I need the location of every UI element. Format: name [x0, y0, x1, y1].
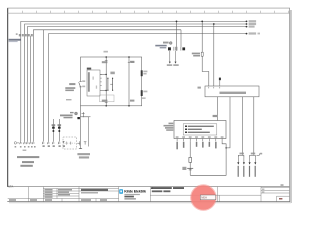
wire strip branch 2 — [226, 97, 230, 148]
approval stamp — [190, 184, 217, 211]
wire F1 out b — [175, 51, 177, 64]
title right small marks — [262, 189, 264, 193]
wire F2b vertical — [58, 119, 60, 141]
company address lines — [124, 194, 139, 200]
stamp MUH box — [200, 195, 216, 200]
motor starter M1 circle — [75, 112, 78, 115]
breaker F1 aux body — [182, 47, 185, 50]
fuse F3 on box right edge — [141, 70, 148, 76]
transformer T1 circle — [169, 42, 172, 45]
terminal strip X1 — [198, 86, 260, 97]
connector A wire labels — [238, 166, 245, 177]
bus line L2 — [25, 24, 247, 141]
label strip X1 — [220, 92, 247, 94]
label motor name — [17, 156, 39, 158]
label motor rating — [20, 150, 34, 167]
relay K1 pins — [100, 74, 102, 85]
label Q1 — [65, 83, 75, 91]
sheet right shadow — [290, 10, 292, 203]
sheet bottom shadow — [9, 202, 291, 203]
label module left — [164, 123, 174, 131]
wire module pin3 chain — [189, 141, 191, 175]
battery tick in pin3 chain — [182, 167, 193, 170]
sheet frame bottom edge — [7, 201, 290, 203]
sheet number text — [279, 198, 282, 200]
coil K1 — [107, 78, 113, 91]
title block small texts left — [9, 189, 107, 201]
wire strip branch 3 — [242, 97, 244, 155]
connector plug B pins — [249, 157, 257, 164]
label module top pin — [213, 115, 217, 117]
fuse F5 tap wire — [201, 21, 209, 87]
terminal number marks row — [15, 145, 65, 147]
terminal stub mark — [219, 78, 221, 86]
controller module U1 — [174, 121, 226, 139]
label middle wire top — [102, 60, 108, 63]
node source cross-reference label — [9, 39, 21, 42]
auxiliary contact bracket — [77, 141, 86, 145]
wire K1 to node M top — [100, 74, 107, 76]
drawing area bottom frame — [7, 186, 289, 188]
motor starter ticks — [82, 112, 91, 117]
motor starter M1 contact block — [77, 117, 80, 119]
sheet frame top edge — [7, 7, 290, 9]
label F5 — [192, 53, 200, 57]
title block grid — [8, 187, 290, 202]
breaker F1 body — [168, 47, 171, 50]
label F2a — [52, 124, 56, 126]
strip pin ticks — [209, 87, 220, 89]
label above box top — [104, 51, 108, 53]
interlock wire vertical — [81, 117, 89, 147]
label F1 reference — [155, 45, 166, 49]
connector B wire labels — [249, 166, 256, 177]
title cell icon — [151, 187, 153, 189]
title block project text — [81, 189, 108, 194]
sheet frame left edge — [7, 8, 9, 187]
wire module loop bottom — [190, 141, 227, 175]
wire strip to module top — [217, 97, 219, 121]
bus line L3 — [27, 27, 246, 141]
node PE right end — [246, 32, 260, 34]
label interlock — [77, 153, 90, 158]
wire middle vertical — [105, 56, 107, 106]
title drawing name line2 — [152, 190, 171, 192]
fuse F4 on box right edge — [141, 90, 148, 99]
overload F2a body — [52, 127, 55, 132]
ruler column ticks — [22, 11, 288, 13]
module pin number marks — [176, 136, 224, 138]
company logo blue square — [119, 189, 123, 194]
label frame inside box bottom — [100, 95, 114, 102]
motor terminal row left — [20, 141, 35, 144]
bus line N — [33, 30, 181, 141]
tap wire L2 to strip — [213, 23, 215, 86]
node L1 right end — [246, 20, 257, 22]
bus line PE — [49, 34, 247, 141]
overload F2b body — [58, 127, 61, 132]
disconnect switch Q1 on box left edge — [79, 80, 86, 87]
ground PE symbol — [14, 142, 19, 144]
label coil — [110, 72, 114, 75]
label middle wire bottom — [102, 100, 108, 103]
module pin wire labels vertical — [176, 142, 216, 150]
wire name labels row — [16, 33, 33, 36]
svg-text:Kirde Elektrik: Kirde Elektrik — [124, 189, 147, 194]
label node bottom right vertical — [130, 100, 134, 102]
dashed limit box — [63, 137, 77, 149]
connector plug A bracket — [238, 153, 244, 158]
center enclosure box — [81, 57, 142, 106]
node L2 right end — [246, 23, 257, 25]
module bottom pin stubs — [177, 139, 222, 142]
svg-text:MÜH: MÜH — [201, 197, 207, 200]
connector plug A pins — [237, 157, 245, 164]
wire right vertical inside box — [128, 56, 130, 106]
label F2b — [58, 124, 62, 126]
ruler band bottom line — [7, 12, 289, 14]
neutral elbow wire from N — [180, 30, 182, 47]
label F1 — [163, 42, 169, 44]
wire F2a vertical — [52, 119, 54, 141]
title drawing name line1 — [152, 187, 184, 189]
label node top right vertical — [130, 61, 134, 63]
sheet frame right edge — [289, 8, 291, 202]
breaker F1 contacts — [174, 47, 181, 51]
label K1 — [87, 68, 91, 70]
title mid grid — [150, 195, 261, 201]
label F1 outputs — [167, 64, 179, 66]
fuse F6 in pin3 chain — [189, 157, 192, 162]
pin tick on right vertical — [128, 61, 135, 63]
svg-text:NTA: NTA — [8, 184, 14, 188]
label NTA — [8, 184, 14, 188]
fuse F5 ticks — [201, 52, 203, 56]
main feed wire end tick — [79, 106, 82, 149]
fuse F1 tap wire from L1 — [176, 21, 178, 51]
company logo name — [124, 189, 147, 194]
wire tap from N at 43.3 — [42, 30, 44, 141]
cluster contactor F2 labels — [60, 112, 74, 118]
label feeder group small — [66, 99, 72, 100]
wire stub N2 — [30, 36, 32, 141]
module U1 inner label plate — [183, 124, 217, 135]
connector plug B bracket — [250, 153, 263, 158]
wire F1 out a — [169, 51, 171, 64]
node L3 right end — [246, 26, 255, 28]
bus line L1 — [21, 21, 247, 141]
motor terminal row right — [42, 141, 65, 144]
wire strip branch 4 — [253, 97, 255, 155]
relay K1 body — [87, 70, 100, 96]
wire K1 to node M bottom — [100, 90, 107, 92]
label col mark — [281, 184, 284, 186]
